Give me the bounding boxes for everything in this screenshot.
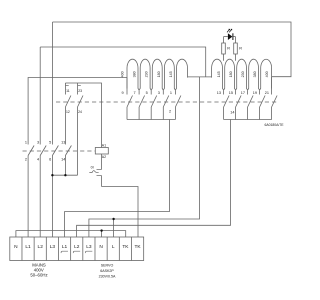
svg-text:15: 15	[229, 91, 233, 95]
svg-text:1: 1	[170, 91, 172, 95]
svg-text:L3: L3	[50, 244, 56, 250]
svg-text:21: 21	[265, 91, 269, 95]
svg-text:180: 180	[157, 71, 161, 77]
svg-text:13: 13	[217, 91, 221, 95]
svg-text:L2: L2	[74, 244, 80, 250]
svg-text:6A0180A/7E: 6A0180A/7E	[264, 123, 284, 127]
svg-text:14: 14	[61, 157, 65, 161]
svg-text:9: 9	[121, 91, 123, 95]
svg-text:5: 5	[49, 141, 51, 145]
svg-text:180: 180	[229, 71, 233, 77]
svg-text:145: 145	[169, 71, 173, 77]
svg-text:N: N	[14, 244, 18, 250]
svg-text:A1: A1	[102, 143, 106, 147]
svg-text:145: 145	[217, 71, 221, 77]
svg-text:R: R	[239, 46, 242, 50]
svg-text:R: R	[227, 46, 230, 50]
svg-text:14: 14	[230, 111, 234, 115]
svg-text:11: 11	[66, 89, 70, 93]
svg-text:6ASK2P: 6ASK2P	[100, 269, 114, 273]
svg-text:L1: L1	[25, 244, 31, 250]
svg-text:17: 17	[241, 91, 245, 95]
svg-text:SERVO: SERVO	[101, 263, 114, 267]
svg-text:6: 6	[49, 157, 51, 161]
svg-text:L: L	[112, 244, 115, 250]
svg-text:L1: L1	[62, 244, 68, 250]
svg-text:380: 380	[133, 71, 137, 77]
svg-text:12: 12	[66, 110, 70, 114]
svg-text:50–60Hz: 50–60Hz	[30, 272, 47, 277]
svg-text:A2: A2	[102, 155, 106, 159]
svg-text:0I: 0I	[91, 165, 94, 169]
svg-text:3: 3	[37, 141, 39, 145]
svg-text:23: 23	[78, 89, 82, 93]
svg-text:L3: L3	[86, 244, 92, 250]
svg-text:L2: L2	[38, 244, 44, 250]
svg-text:380: 380	[253, 71, 257, 77]
svg-text:230: 230	[241, 71, 245, 77]
svg-text:N: N	[99, 244, 103, 250]
svg-text:24: 24	[78, 110, 82, 114]
svg-text:230V/0.5A: 230V/0.5A	[99, 274, 116, 278]
svg-text:2: 2	[25, 157, 27, 161]
svg-text:1: 1	[25, 141, 27, 145]
svg-text:TK: TK	[122, 244, 129, 250]
svg-text:7: 7	[134, 91, 136, 95]
svg-text:4: 4	[37, 157, 39, 161]
svg-text:19: 19	[253, 91, 257, 95]
svg-text:2: 2	[169, 110, 171, 114]
svg-text:400: 400	[265, 71, 269, 77]
svg-text:3: 3	[158, 91, 160, 95]
svg-text:5: 5	[146, 91, 148, 95]
svg-text:13: 13	[61, 141, 65, 145]
svg-text:230: 230	[145, 71, 149, 77]
svg-text:400: 400	[121, 71, 125, 77]
svg-text:TK: TK	[135, 244, 142, 250]
